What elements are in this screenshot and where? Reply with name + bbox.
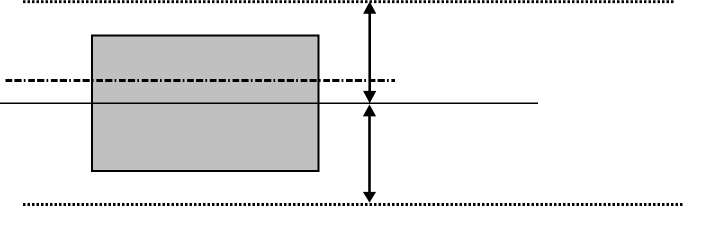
lower arrow head down bbox=[363, 192, 376, 203]
lower arrow head up bbox=[363, 104, 376, 116]
bottom dotted boundary line bbox=[23, 203, 684, 206]
gray rectangle bbox=[92, 36, 319, 172]
thin solid horizontal line bbox=[0, 102, 538, 104]
lower double-headed arrow shaft bbox=[368, 113, 371, 195]
upper arrow head up bbox=[363, 2, 376, 14]
top dotted boundary line bbox=[23, 0, 674, 3]
upper double-headed arrow shaft bbox=[368, 11, 371, 94]
upper arrow head down bbox=[363, 91, 376, 103]
dash-dot centerline bbox=[6, 79, 396, 82]
